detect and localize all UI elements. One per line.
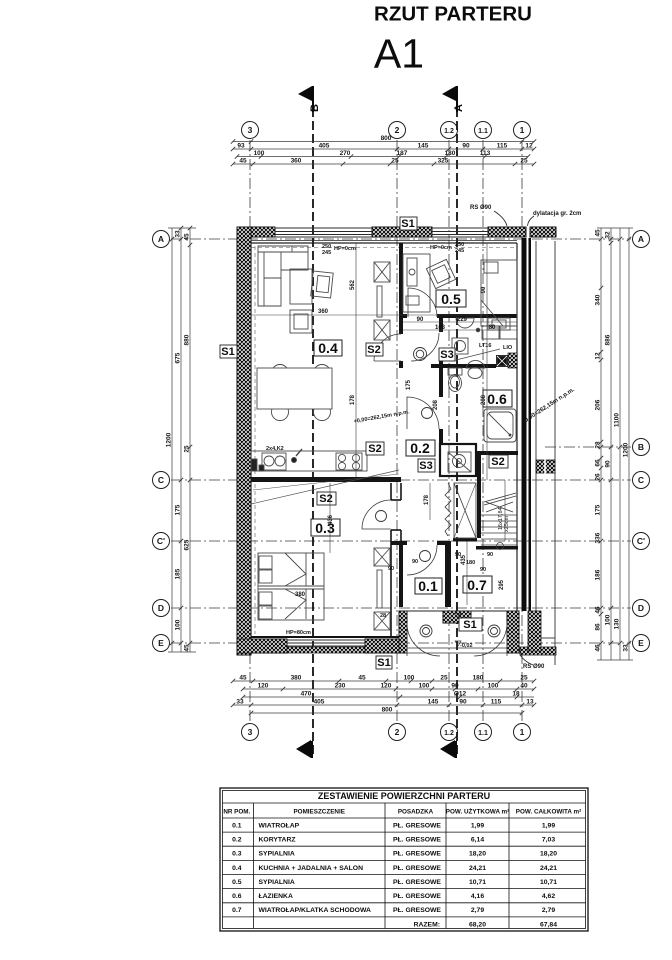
svg-text:6,14: 6,14 [471,837,484,844]
svg-text:RS Ø90: RS Ø90 [523,664,545,670]
svg-text:C: C [638,475,644,485]
svg-text:C: C [158,475,164,485]
svg-text:380: 380 [291,675,302,682]
svg-text:28: 28 [455,613,461,619]
svg-text:S3: S3 [419,460,432,472]
svg-text:187: 187 [397,150,408,157]
svg-text:886: 886 [605,334,612,345]
svg-text:880: 880 [184,334,191,345]
svg-text:2x4,K2: 2x4,K2 [266,446,284,452]
svg-text:45: 45 [184,233,191,241]
svg-text:2: 2 [395,727,400,737]
svg-text:12: 12 [525,143,533,150]
svg-text:25: 25 [440,675,448,682]
svg-text:LIO: LIO [503,345,513,351]
svg-text:1,99: 1,99 [542,823,555,830]
svg-text:270: 270 [340,150,351,157]
svg-text:0.7: 0.7 [232,907,242,914]
svg-text:0.5: 0.5 [441,291,461,307]
svg-text:1.2: 1.2 [444,730,454,737]
svg-text:45: 45 [239,158,247,165]
svg-text:10,71: 10,71 [469,879,486,886]
svg-text:245: 245 [455,248,464,254]
svg-text:S2: S2 [367,344,380,356]
svg-text:340: 340 [595,294,602,305]
svg-text:0.5: 0.5 [232,879,242,886]
svg-text:32: 32 [605,231,612,239]
svg-text:S2: S2 [368,443,381,455]
svg-text:1.1: 1.1 [478,128,488,135]
svg-text:HP=0cm: HP=0cm [430,245,452,251]
svg-text:S2: S2 [491,456,504,468]
svg-text:1: 1 [520,727,525,737]
svg-text:2,79: 2,79 [542,907,555,914]
svg-text:90: 90 [481,286,487,293]
svg-text:E: E [638,638,644,648]
svg-text:90: 90 [417,317,424,323]
svg-text:208: 208 [481,394,487,405]
svg-text:4,62: 4,62 [542,893,555,900]
svg-text:13: 13 [526,699,534,706]
svg-text:25: 25 [520,675,528,682]
svg-text:325: 325 [438,158,449,165]
svg-text:S2: S2 [319,493,332,505]
svg-text:C': C' [157,536,165,546]
svg-text:800: 800 [382,707,393,714]
svg-text:PŁ. GRESOWE: PŁ. GRESOWE [393,893,441,900]
svg-text:E: E [158,638,164,648]
svg-text:295: 295 [499,579,505,590]
svg-text:100: 100 [605,614,612,625]
svg-text:2,79: 2,79 [471,907,484,914]
svg-text:90: 90 [412,559,418,565]
svg-text:130: 130 [614,618,621,629]
svg-text:NR POM.: NR POM. [223,809,250,816]
svg-text:380: 380 [295,592,306,598]
svg-text:C': C' [637,536,645,546]
svg-text:180: 180 [445,150,456,157]
svg-text:120: 120 [381,683,392,690]
svg-text:405: 405 [319,143,330,150]
svg-text:33: 33 [175,230,182,238]
svg-text:KORYTARZ: KORYTARZ [259,837,296,844]
svg-text:436: 436 [328,514,334,525]
svg-text:D: D [638,603,644,613]
svg-text:PŁ. GRESOWE: PŁ. GRESOWE [393,879,441,886]
svg-text:405: 405 [314,699,325,706]
svg-text:0.4: 0.4 [232,865,242,872]
svg-text:625: 625 [184,539,191,550]
svg-text:24,21: 24,21 [469,865,486,872]
svg-text:100: 100 [419,683,430,690]
svg-text:3: 3 [248,125,253,135]
svg-text:245: 245 [322,250,331,256]
svg-text:RAZEM:: RAZEM: [414,921,440,928]
svg-text:D: D [158,603,164,613]
svg-text:PŁ. GRESOWE: PŁ. GRESOWE [393,851,441,858]
svg-text:33: 33 [623,644,630,652]
svg-text:SYPIALNIA: SYPIALNIA [259,879,295,886]
svg-text:POSADZKA: POSADZKA [398,809,434,816]
svg-text:25: 25 [184,445,191,453]
svg-text:7,03: 7,03 [542,837,555,844]
svg-text:120: 120 [258,683,269,690]
svg-text:470: 470 [301,691,312,698]
svg-text:18,20: 18,20 [540,851,557,858]
svg-text:0.3: 0.3 [232,851,242,858]
svg-text:435: 435 [461,554,467,565]
svg-text:45: 45 [184,644,191,652]
svg-text:ZESTAWIENIE POWIERZCHNI PARTER: ZESTAWIENIE POWIERZCHNI PARTERU [318,791,490,801]
svg-text:33: 33 [236,699,244,706]
svg-text:68,20: 68,20 [469,921,486,928]
svg-text:115: 115 [497,143,508,150]
svg-text:229: 229 [457,317,468,323]
svg-text:28: 28 [595,441,602,449]
svg-text:18,20: 18,20 [469,851,486,858]
svg-text:0.6: 0.6 [232,893,242,900]
svg-text:-0,02: -0,02 [460,643,473,649]
svg-text:1.2: 1.2 [444,128,454,135]
svg-text:RZUT PARTERU: RZUT PARTERU [374,3,532,26]
svg-text:80: 80 [489,325,496,331]
svg-text:4,16: 4,16 [471,893,484,900]
svg-text:PŁ. GRESOWE: PŁ. GRESOWE [393,907,441,914]
svg-text:178: 178 [350,394,356,405]
svg-text:3: 3 [248,727,253,737]
svg-text:SYPIALNIA: SYPIALNIA [259,851,295,858]
svg-text:A1: A1 [374,31,424,77]
svg-text:25: 25 [391,158,399,165]
svg-text:90: 90 [480,567,486,573]
svg-text:45: 45 [239,675,247,682]
svg-text:113: 113 [480,150,491,157]
svg-text:28: 28 [380,613,386,619]
svg-text:46: 46 [595,606,602,614]
svg-text:B: B [300,745,312,753]
svg-text:163: 163 [435,325,446,331]
svg-text:B: B [638,442,644,452]
svg-text:18: 18 [512,691,520,698]
svg-text:100: 100 [488,683,499,690]
svg-text:A: A [453,104,465,112]
svg-text:100: 100 [175,619,182,630]
svg-text:0.7: 0.7 [467,577,487,593]
svg-text:175: 175 [595,504,602,515]
svg-text:WIATROŁAP/KLATKA SCHODOWA: WIATROŁAP/KLATKA SCHODOWA [259,907,371,914]
svg-text:A: A [444,745,456,753]
svg-text:360: 360 [291,158,302,165]
svg-text:206: 206 [595,399,602,410]
svg-text:1.1: 1.1 [478,730,488,737]
svg-text:0.2: 0.2 [410,440,430,456]
svg-text:86: 86 [595,623,602,631]
svg-text:S3: S3 [440,349,453,361]
svg-text:KUCHNIA + JADALNIA + SALON: KUCHNIA + JADALNIA + SALON [259,865,364,872]
svg-text:PŁ. GRESOWE: PŁ. GRESOWE [393,865,441,872]
svg-text:S1: S1 [401,218,414,230]
svg-text:ŁAZIENKA: ŁAZIENKA [259,893,293,900]
svg-text:66: 66 [595,459,602,467]
svg-text:675: 675 [175,352,182,363]
svg-text:POMIESZCZENIE: POMIESZCZENIE [293,809,344,816]
svg-text:2: 2 [395,125,400,135]
svg-text:145: 145 [428,699,439,706]
svg-text:Ø12: Ø12 [454,691,467,698]
svg-text:A: A [158,234,164,244]
svg-text:40: 40 [520,683,528,690]
svg-text:0.4: 0.4 [318,340,338,356]
svg-text:100: 100 [254,150,265,157]
svg-text:12: 12 [595,352,602,360]
svg-text:0.1: 0.1 [232,823,242,830]
svg-text:208: 208 [433,399,439,410]
svg-text:45: 45 [358,675,366,682]
svg-text:S1: S1 [377,657,390,669]
svg-text:WIATROŁAP: WIATROŁAP [259,823,300,830]
svg-text:67,84: 67,84 [540,921,557,928]
svg-text:LT16: LT16 [479,343,491,349]
svg-text:180: 180 [473,675,484,682]
svg-text:115: 115 [491,699,502,706]
svg-text:1200: 1200 [166,432,173,447]
svg-text:PŁ. GRESOWE: PŁ. GRESOWE [393,837,441,844]
svg-text:185: 185 [175,568,182,579]
svg-text:RS Ø90: RS Ø90 [470,205,492,211]
svg-text:1: 1 [520,125,525,135]
svg-text:A: A [638,234,644,244]
svg-text:HP=0cm: HP=0cm [334,246,356,252]
svg-text:1100: 1100 [614,413,621,427]
svg-text:360: 360 [318,309,329,315]
svg-text:1200: 1200 [623,442,630,457]
svg-text:POW. UŻYTKOWA m²: POW. UŻYTKOWA m² [446,808,509,816]
svg-text:178: 178 [424,494,430,505]
svg-text:10,71: 10,71 [540,879,557,886]
svg-text:45: 45 [595,229,602,237]
svg-text:POW. CAŁKOWITA m²: POW. CAŁKOWITA m² [516,809,581,816]
svg-text:90: 90 [605,460,612,468]
svg-text:145: 145 [418,143,429,150]
svg-text:90: 90 [388,566,394,572]
svg-text:PŁ. GRESOWE: PŁ. GRESOWE [393,823,441,830]
svg-text:90: 90 [487,552,493,558]
svg-text:HP=80cm: HP=80cm [286,630,311,636]
svg-text:0.6: 0.6 [487,391,507,407]
svg-text:230: 230 [335,683,346,690]
svg-text:175: 175 [175,504,182,515]
svg-text:+0,00=262,15m n.p.m.: +0,00=262,15m n.p.m. [353,409,410,425]
svg-text:800: 800 [381,135,392,142]
svg-text:46: 46 [595,644,602,652]
svg-text:186: 186 [595,569,602,580]
svg-text:90: 90 [459,699,467,706]
svg-text:S1: S1 [463,619,476,631]
svg-text:25: 25 [520,158,528,165]
svg-text:90: 90 [451,683,459,690]
svg-text:562: 562 [350,279,356,290]
svg-text:93: 93 [237,143,245,150]
svg-text:175: 175 [406,379,412,390]
svg-text:336: 336 [595,532,602,543]
svg-text:26: 26 [595,473,602,481]
svg-text:0.1: 0.1 [418,578,438,594]
svg-text:B: B [309,104,321,112]
svg-text:180: 180 [466,560,475,566]
svg-text:90: 90 [462,143,470,150]
svg-text:0.2: 0.2 [232,837,242,844]
svg-text:dylatacja gr. 2cm: dylatacja gr. 2cm [533,211,581,217]
svg-text:24,21: 24,21 [540,865,557,872]
svg-text:1,99: 1,99 [471,823,484,830]
svg-text:S1: S1 [221,346,234,358]
svg-text:100: 100 [404,675,415,682]
